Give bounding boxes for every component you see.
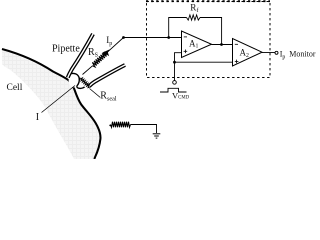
- bottom rail wire: [175, 61, 233, 63]
- Vcmd pulse symbol: [160, 88, 187, 92]
- cell membrane: [2, 49, 100, 159]
- junction node feedback tap: [167, 36, 170, 39]
- junction node pipette/input: [122, 36, 125, 39]
- pipette right wall: [89, 65, 125, 86]
- resistor Rf zigzag: [187, 15, 201, 20]
- feedback wire left vertical: [169, 18, 187, 38]
- op-amp A2: [233, 39, 263, 67]
- feedback wire right vertical: [200, 18, 222, 45]
- ground symbol: [153, 133, 161, 135]
- svg-text:I: I: [36, 112, 39, 123]
- bath electrode resistor coil: [109, 125, 111, 127]
- dashed enclosure (headstage): [147, 2, 271, 78]
- op-amp A1: [182, 31, 212, 58]
- svg-text:Rf: Rf: [190, 3, 198, 15]
- junction node A1 output: [220, 43, 223, 46]
- svg-text:Pipette: Pipette: [52, 43, 80, 54]
- terminal Ip monitor: [275, 51, 278, 54]
- cell body (hatched cytoplasm): [2, 50, 100, 159]
- current arrow Ip: [103, 50, 109, 56]
- membrane patch (omega bleb at pipette tip): [69, 74, 79, 87]
- wire: A2 output: [262, 52, 275, 54]
- svg-text:Ip: Ip: [106, 35, 112, 47]
- wire: electrode to Rs: [83, 66, 93, 75]
- resistor Rs zigzag: [92, 52, 108, 67]
- wire: input to A1 inverting input: [124, 37, 182, 39]
- leader line for Rseal: [90, 89, 101, 98]
- wire: Vcmd drop: [174, 62, 176, 80]
- wire: A1 non-inverting input: [175, 53, 182, 63]
- terminal Vcmd: [173, 81, 177, 85]
- resistor Rseal zigzag at tip: [80, 78, 90, 88]
- svg-text:Cell: Cell: [7, 83, 23, 93]
- junction node Vcmd tap: [173, 61, 176, 64]
- wire: A1 output to A2: [212, 44, 233, 46]
- svg-text:Rseal: Rseal: [100, 90, 117, 102]
- svg-text:RS: RS: [88, 47, 98, 59]
- svg-text:IpMonitor: IpMonitor: [280, 49, 316, 60]
- ground wire: [131, 125, 157, 134]
- pipette left wall: [68, 34, 93, 78]
- leader line for I: [42, 86, 76, 113]
- wire: Rs to junction: [107, 38, 123, 53]
